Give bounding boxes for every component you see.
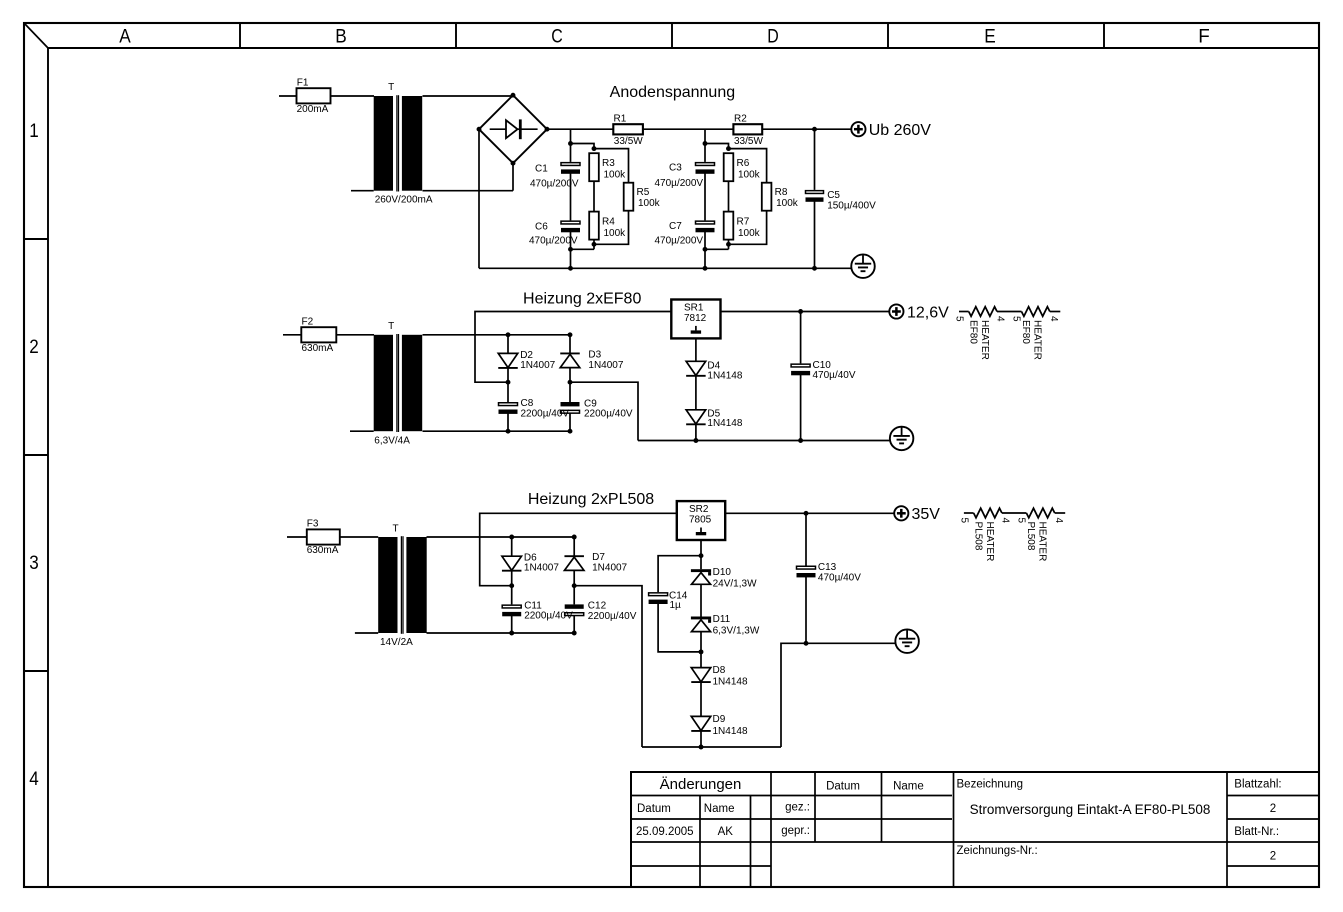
svg-text:D7: D7 xyxy=(592,552,605,563)
svg-text:D: D xyxy=(767,26,779,47)
svg-text:1µ: 1µ xyxy=(670,600,682,611)
svg-text:5: 5 xyxy=(1015,518,1026,524)
svg-text:D3: D3 xyxy=(588,350,601,361)
svg-text:D10: D10 xyxy=(713,567,732,578)
svg-text:7812: 7812 xyxy=(684,313,707,324)
svg-text:C13: C13 xyxy=(818,562,837,573)
svg-text:T: T xyxy=(388,321,394,332)
svg-text:2: 2 xyxy=(1270,850,1276,862)
svg-text:6,3V/1,3W: 6,3V/1,3W xyxy=(713,625,760,636)
svg-text:470µ/200V: 470µ/200V xyxy=(655,236,704,247)
svg-text:T: T xyxy=(392,524,398,535)
svg-text:100k: 100k xyxy=(638,198,661,209)
svg-text:1: 1 xyxy=(29,121,39,142)
svg-text:Blatt-Nr.:: Blatt-Nr.: xyxy=(1234,826,1279,838)
svg-text:C3: C3 xyxy=(669,163,682,174)
svg-text:C8: C8 xyxy=(521,398,534,409)
svg-text:C1: C1 xyxy=(535,164,548,175)
svg-text:Ub 260V: Ub 260V xyxy=(869,122,932,139)
svg-text:33/5W: 33/5W xyxy=(734,136,763,147)
svg-text:33/5W: 33/5W xyxy=(614,136,643,147)
svg-text:1N4007: 1N4007 xyxy=(524,563,559,574)
svg-text:C11: C11 xyxy=(524,600,542,611)
svg-text:D8: D8 xyxy=(713,665,726,676)
svg-text:SR2: SR2 xyxy=(689,504,709,515)
svg-text:SR1: SR1 xyxy=(684,303,704,314)
svg-text:470µ/200V: 470µ/200V xyxy=(529,236,578,247)
svg-text:Datum: Datum xyxy=(637,803,671,815)
svg-text:T: T xyxy=(388,82,394,93)
svg-text:2200µ/40V: 2200µ/40V xyxy=(588,611,637,622)
svg-text:4: 4 xyxy=(29,769,39,790)
svg-text:HEATER: HEATER xyxy=(984,522,995,562)
svg-text:Heizung 2xPL508: Heizung 2xPL508 xyxy=(528,491,654,508)
svg-text:R3: R3 xyxy=(602,158,615,169)
svg-text:AK: AK xyxy=(718,826,734,838)
svg-text:470µ/40V: 470µ/40V xyxy=(818,573,861,584)
svg-text:35V: 35V xyxy=(912,506,941,523)
svg-text:5: 5 xyxy=(1011,316,1022,322)
svg-text:EF80: EF80 xyxy=(1020,320,1031,344)
svg-text:7805: 7805 xyxy=(689,515,712,526)
svg-text:2: 2 xyxy=(29,337,39,358)
svg-text:100k: 100k xyxy=(604,169,627,180)
svg-text:2200µ/40V: 2200µ/40V xyxy=(584,409,633,420)
svg-text:6,3V/4A: 6,3V/4A xyxy=(374,435,410,446)
svg-text:260V/200mA: 260V/200mA xyxy=(375,194,433,205)
svg-text:E: E xyxy=(984,26,996,47)
svg-text:1N4148: 1N4148 xyxy=(707,370,742,381)
svg-text:100k: 100k xyxy=(776,198,799,209)
svg-text:A: A xyxy=(119,26,131,47)
svg-text:R4: R4 xyxy=(602,217,615,228)
svg-text:470µ/200V: 470µ/200V xyxy=(655,178,704,189)
svg-text:100k: 100k xyxy=(738,228,761,239)
svg-text:1N4007: 1N4007 xyxy=(592,563,627,574)
svg-text:1N4007: 1N4007 xyxy=(588,360,623,371)
svg-text:Zeichnungs-Nr.:: Zeichnungs-Nr.: xyxy=(957,845,1038,857)
svg-text:14V/2A: 14V/2A xyxy=(380,637,413,648)
svg-text:F2: F2 xyxy=(302,316,314,327)
svg-text:R5: R5 xyxy=(637,187,650,198)
svg-text:1N4148: 1N4148 xyxy=(713,726,748,737)
svg-text:F1: F1 xyxy=(297,77,309,88)
svg-text:D9: D9 xyxy=(713,714,726,725)
svg-text:2: 2 xyxy=(1270,803,1276,815)
svg-text:4: 4 xyxy=(1053,518,1064,524)
svg-text:R6: R6 xyxy=(737,158,750,169)
svg-text:D11: D11 xyxy=(713,614,731,625)
svg-text:470µ/40V: 470µ/40V xyxy=(813,370,856,381)
svg-text:Name: Name xyxy=(704,803,735,815)
svg-text:4: 4 xyxy=(999,518,1010,524)
svg-text:5: 5 xyxy=(958,518,969,524)
svg-text:4: 4 xyxy=(1048,316,1059,322)
svg-text:B: B xyxy=(335,26,347,47)
svg-text:12,6V: 12,6V xyxy=(907,304,949,321)
svg-text:Bezeichnung: Bezeichnung xyxy=(957,778,1024,790)
svg-text:4: 4 xyxy=(995,316,1006,322)
svg-text:R8: R8 xyxy=(775,187,788,198)
svg-text:100k: 100k xyxy=(738,169,761,180)
svg-text:Blattzahl:: Blattzahl: xyxy=(1234,778,1281,790)
svg-text:R2: R2 xyxy=(734,114,747,125)
svg-text:470µ/200V: 470µ/200V xyxy=(530,178,579,189)
svg-text:630mA: 630mA xyxy=(302,343,334,354)
svg-text:C6: C6 xyxy=(535,222,548,233)
svg-text:5: 5 xyxy=(954,316,965,322)
svg-text:Name: Name xyxy=(893,781,924,793)
svg-text:150µ/400V: 150µ/400V xyxy=(827,200,876,211)
svg-text:24V/1,3W: 24V/1,3W xyxy=(713,578,757,589)
svg-text:C9: C9 xyxy=(584,398,597,409)
svg-text:C12: C12 xyxy=(588,601,607,612)
svg-text:Datum: Datum xyxy=(826,781,860,793)
svg-text:PL508: PL508 xyxy=(1025,522,1036,551)
svg-text:PL508: PL508 xyxy=(973,522,984,551)
svg-text:gepr.:: gepr.: xyxy=(781,825,810,837)
svg-text:Stromversorgung Eintakt-A EF80: Stromversorgung Eintakt-A EF80-PL508 xyxy=(970,802,1211,817)
svg-text:HEATER: HEATER xyxy=(1037,522,1048,562)
svg-text:gez.:: gez.: xyxy=(785,802,810,814)
svg-text:1N4148: 1N4148 xyxy=(713,677,748,688)
svg-text:1N4148: 1N4148 xyxy=(707,418,742,429)
svg-text:200mA: 200mA xyxy=(297,104,329,115)
svg-text:Änderungen: Änderungen xyxy=(660,776,742,793)
svg-text:C7: C7 xyxy=(669,221,682,232)
svg-text:Heizung 2xEF80: Heizung 2xEF80 xyxy=(523,291,641,308)
svg-text:630mA: 630mA xyxy=(307,545,339,556)
svg-text:C: C xyxy=(551,26,563,47)
svg-text:R1: R1 xyxy=(614,114,627,125)
svg-text:EF80: EF80 xyxy=(968,320,979,344)
svg-text:Anodenspannung: Anodenspannung xyxy=(610,84,735,101)
svg-text:F3: F3 xyxy=(307,518,319,529)
svg-text:1N4007: 1N4007 xyxy=(520,360,555,371)
svg-text:R7: R7 xyxy=(737,217,750,228)
svg-text:25.09.2005: 25.09.2005 xyxy=(636,826,694,838)
svg-text:F: F xyxy=(1198,26,1210,47)
svg-text:HEATER: HEATER xyxy=(979,320,990,360)
svg-text:3: 3 xyxy=(29,553,39,574)
svg-text:HEATER: HEATER xyxy=(1032,320,1043,360)
svg-text:100k: 100k xyxy=(604,228,627,239)
